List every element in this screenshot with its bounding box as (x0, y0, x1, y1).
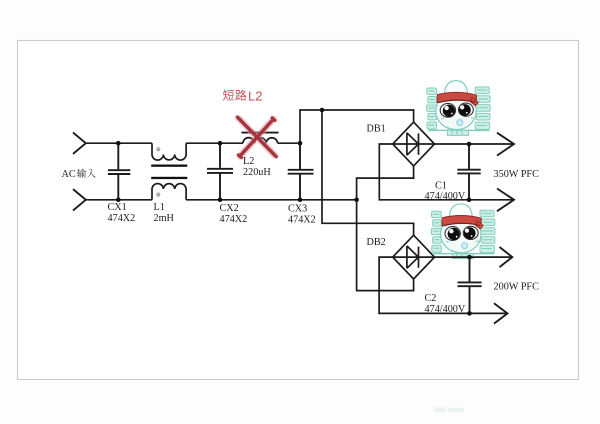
AC input arrow top (73, 133, 86, 154)
wire DB2 dc- rail (379, 257, 507, 313)
capacitor CX1 (108, 143, 130, 200)
annotation short L2 red text (223, 88, 263, 103)
svg-text:DB1: DB1 (367, 124, 386, 135)
inductor L1 top winding (152, 143, 186, 160)
svg-text:474X2: 474X2 (220, 214, 248, 225)
output arrow 350W - (497, 189, 514, 212)
svg-text:L1: L1 (154, 202, 165, 213)
diode inside DB1 (393, 133, 435, 155)
faint watermark smudge (434, 407, 464, 413)
svg-text:DB2: DB2 (367, 237, 386, 248)
wire feed from node to DB2 (322, 110, 414, 235)
svg-text:C1: C1 (435, 181, 447, 192)
svg-text:L2: L2 (243, 156, 254, 167)
svg-text:474X2: 474X2 (288, 215, 316, 226)
capacitor C2 (458, 257, 482, 313)
phase dot bottom L1 (156, 193, 160, 197)
svg-text:474/400V: 474/400V (425, 191, 466, 202)
wire DB2 ac2 feed (357, 200, 414, 291)
output arrow 200W + (500, 247, 513, 267)
capacitor CX2 (207, 143, 233, 200)
AC input arrow bottom (73, 189, 86, 210)
wire feed from CX3 top to DB1 (300, 110, 414, 143)
svg-text:AC: AC (62, 169, 76, 180)
output arrow 350W + (497, 133, 514, 156)
svg-text:474/400V: 474/400V (425, 304, 466, 315)
wire DB1 ac2 feed (357, 166, 414, 200)
inductor L2 coil (243, 138, 278, 144)
inductor L1 bottom winding (152, 184, 186, 200)
svg-text:200W PFC: 200W PFC (494, 282, 540, 293)
wire bottom main (86, 199, 357, 201)
capacitor C1 (457, 144, 480, 200)
svg-text:2mH: 2mH (154, 213, 175, 224)
wire DB1 dc+ rail (435, 143, 515, 145)
mascot sticker 2 (431, 204, 495, 259)
svg-text:L2: L2 (248, 88, 262, 103)
bridge DB1 diamond (393, 122, 435, 166)
svg-text:474X2: 474X2 (108, 213, 136, 224)
svg-text:C2: C2 (425, 293, 437, 304)
wire DB2 dc+ rail (435, 256, 513, 258)
short jumper bar over L2 (242, 132, 279, 134)
svg-text:350W PFC: 350W PFC (494, 169, 540, 180)
output arrow 200W - (494, 303, 508, 323)
mascot sticker 1 (427, 81, 491, 136)
phase dot top L1 (156, 147, 160, 151)
svg-text:CX1: CX1 (108, 202, 127, 213)
wire top main (86, 142, 300, 144)
svg-text:220uH: 220uH (243, 167, 271, 178)
diode inside DB2 (393, 246, 435, 268)
capacitor CX3 (288, 143, 314, 200)
wire DB1 dc- rail (379, 144, 514, 200)
svg-text:CX2: CX2 (220, 203, 239, 214)
transformer core bars L1 (151, 165, 187, 180)
red X cross-out over L2 (237, 117, 276, 157)
svg-text:CX3: CX3 (288, 204, 307, 215)
bridge DB2 diamond (393, 235, 435, 279)
